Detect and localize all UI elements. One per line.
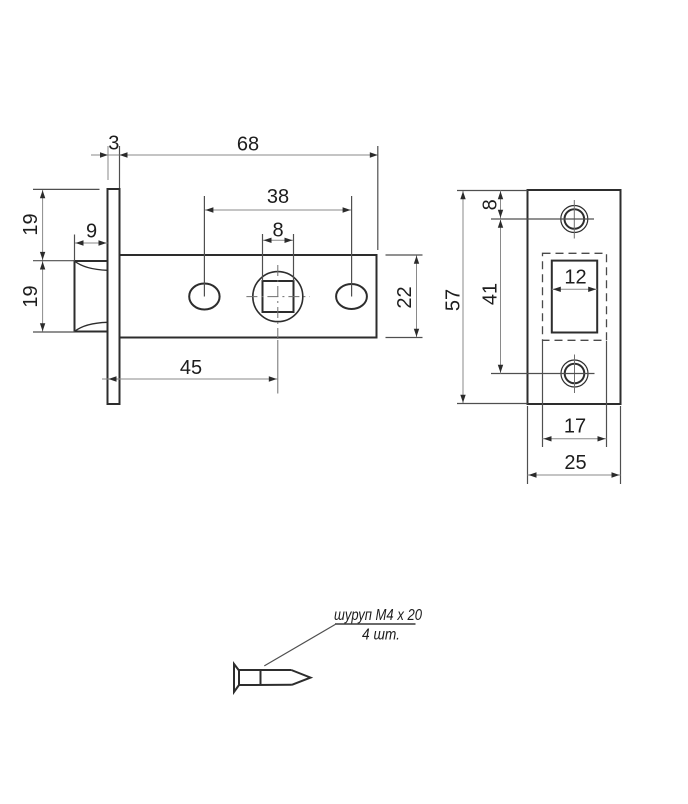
svg-text:8: 8	[480, 199, 502, 210]
dimension 8 top	[263, 220, 294, 281]
dimension 68	[120, 134, 378, 250]
spindle square hole	[263, 281, 294, 312]
dimension 22	[386, 255, 423, 338]
svg-text:57: 57	[443, 289, 465, 311]
dimension 12	[552, 267, 597, 293]
dimension 41	[480, 219, 504, 374]
extension line spindle center down to 45 dim	[277, 340, 279, 394]
svg-text:17: 17	[564, 416, 586, 438]
svg-text:25: 25	[564, 452, 586, 474]
dimension 9	[75, 221, 108, 261]
latch bolt	[75, 261, 108, 332]
dimension 45	[102, 357, 278, 382]
screw	[234, 664, 311, 692]
dashed cutout rectangle	[543, 253, 607, 340]
dimension 57	[443, 191, 528, 404]
strike plate outline	[528, 190, 621, 404]
faceplate side view	[108, 189, 120, 404]
dimension 8 right	[480, 191, 504, 219]
svg-text:68: 68	[237, 134, 259, 156]
dimension 19 top	[20, 189, 100, 332]
svg-text:12: 12	[564, 267, 586, 289]
svg-text:3: 3	[108, 133, 119, 155]
dimension 17	[543, 341, 607, 447]
svg-text:38: 38	[267, 186, 289, 208]
latch body outline	[120, 255, 377, 338]
screw leader line	[264, 624, 415, 666]
centerline horizontal through spindle	[246, 296, 309, 298]
svg-text:22: 22	[394, 286, 416, 308]
svg-text:шуруп М4 х 20: шуруп М4 х 20	[334, 607, 422, 624]
dimension 25	[528, 406, 621, 484]
svg-text:19: 19	[20, 285, 42, 307]
svg-text:9: 9	[86, 221, 97, 243]
dimension 19 bottom	[20, 262, 75, 333]
screw label	[334, 607, 422, 644]
left hole	[189, 284, 219, 310]
top screw hole	[491, 200, 594, 239]
svg-text:45: 45	[180, 357, 202, 379]
spindle circle	[253, 272, 303, 322]
latch cutout rectangle	[552, 261, 597, 333]
centerline vertical through spindle	[277, 265, 279, 340]
dimension 3	[91, 133, 120, 188]
bottom screw hole	[491, 355, 595, 394]
right hole	[336, 284, 367, 309]
dimension 38	[204, 186, 351, 296]
svg-text:8: 8	[272, 220, 283, 242]
svg-text:4 шт.: 4 шт.	[362, 627, 400, 644]
svg-text:41: 41	[480, 283, 502, 305]
svg-text:19: 19	[20, 213, 42, 235]
